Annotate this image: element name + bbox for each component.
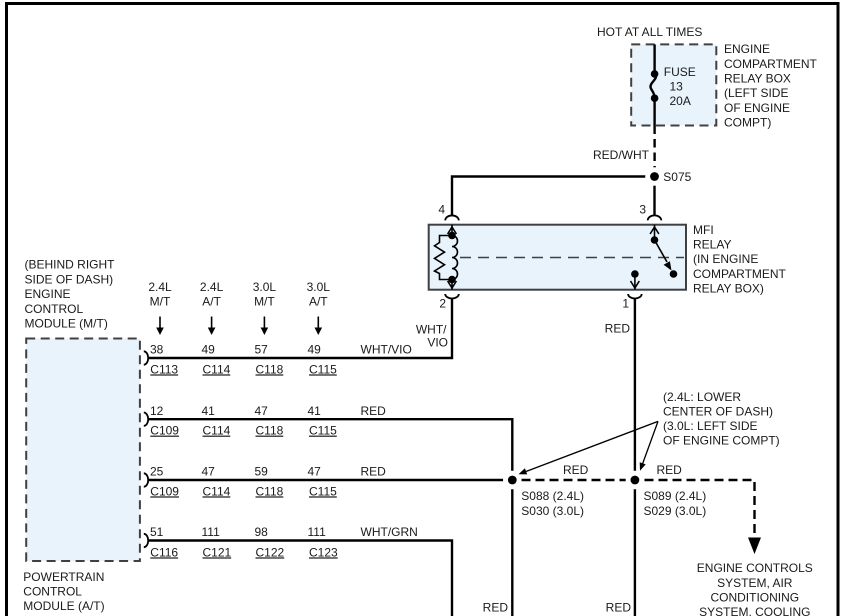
row 2 connector labels C109 C114 C118 C115: [150, 424, 337, 438]
header arrow col 2: [208, 317, 216, 336]
wire RED relay pin 1 down to S089 and bottom: [634, 299, 636, 616]
svg-text:MODULE (M/T): MODULE (M/T): [25, 317, 108, 331]
svg-text:OF ENGINE: OF ENGINE: [724, 101, 790, 115]
svg-text:CONTROL: CONTROL: [23, 585, 82, 599]
svg-text:47: 47: [308, 465, 322, 479]
svg-text:2.4L: 2.4L: [148, 280, 172, 294]
svg-text:C118: C118: [256, 362, 284, 376]
svg-text:RED: RED: [606, 601, 632, 615]
wire RED ECM row 2 to S088: [148, 419, 512, 480]
label (BEHIND RIGHT SIDE OF DASH) ENGINE CONTROL MODULE (M/T): [25, 258, 116, 331]
svg-text:ENGINE CONTROLS: ENGINE CONTROLS: [697, 561, 813, 575]
svg-text:COMPT): COMPT): [724, 115, 771, 129]
svg-text:C114: C114: [203, 484, 231, 498]
svg-text:12: 12: [150, 404, 164, 418]
svg-text:98: 98: [255, 525, 269, 539]
svg-text:RELAY: RELAY: [693, 238, 731, 252]
svg-text:41: 41: [308, 404, 322, 418]
row 3 connector labels C109 C114 C118 C115: [150, 484, 337, 498]
svg-text:1: 1: [622, 297, 629, 311]
svg-text:RED: RED: [605, 322, 631, 336]
row 1 connector arc at ECM: [144, 351, 148, 364]
note arrow to S088: [519, 421, 659, 474]
row 1 connector labels C113 C114 C118 C115: [150, 362, 337, 376]
svg-text:41: 41: [202, 404, 216, 418]
svg-text:C114: C114: [203, 424, 231, 438]
svg-text:3.0L: 3.0L: [253, 280, 277, 294]
svg-text:59: 59: [255, 465, 269, 479]
svg-text:49: 49: [308, 343, 322, 357]
svg-text:SYSTEM, COOLING: SYSTEM, COOLING: [699, 605, 810, 616]
row 4 connector labels C116 C121 C122 C123: [150, 545, 338, 559]
svg-text:C109: C109: [150, 424, 179, 438]
svg-text:49: 49: [202, 343, 216, 357]
pin 4 connector arc: [445, 215, 459, 220]
note arrow to S089: [640, 421, 658, 470]
label ENGINE COMPARTMENT RELAY BOX (LEFT SIDE OF ENGINE COMPT): [724, 42, 818, 129]
svg-text:M/T: M/T: [150, 294, 171, 308]
svg-text:RED: RED: [563, 463, 589, 477]
svg-text:RED: RED: [483, 601, 509, 615]
svg-text:C118: C118: [256, 424, 284, 438]
svg-text:HOT AT ALL TIMES: HOT AT ALL TIMES: [597, 25, 702, 39]
svg-text:C115: C115: [309, 424, 337, 438]
pin 2 connector arc: [445, 294, 459, 298]
row 4 pin numbers 51 111 98 111: [150, 525, 326, 539]
svg-text:2.4L: 2.4L: [200, 280, 224, 294]
column header 2.4L M/T: [148, 280, 172, 308]
svg-text:C114: C114: [203, 362, 231, 376]
svg-text:CONDITIONING: CONDITIONING: [710, 590, 799, 604]
svg-text:CENTER OF DASH): CENTER OF DASH): [663, 405, 773, 419]
relay switch: [631, 225, 668, 290]
svg-text:S075: S075: [663, 170, 691, 184]
svg-text:S029 (3.0L): S029 (3.0L): [644, 504, 707, 518]
svg-text:47: 47: [202, 465, 216, 479]
wire RED S088 down to bottom: [511, 480, 513, 616]
svg-text:C113: C113: [150, 362, 178, 376]
column header 2.4L A/T: [200, 280, 224, 308]
svg-text:RED: RED: [361, 465, 387, 479]
svg-text:47: 47: [255, 404, 269, 418]
column header 3.0L A/T: [307, 280, 331, 308]
svg-text:RELAY BOX: RELAY BOX: [724, 71, 791, 85]
svg-text:C116: C116: [150, 545, 178, 559]
relay MFI box: [429, 225, 686, 290]
svg-text:RED: RED: [657, 463, 683, 477]
svg-text:RED: RED: [361, 404, 387, 418]
svg-text:C121: C121: [203, 545, 232, 559]
svg-text:MFI: MFI: [693, 223, 714, 237]
svg-text:COMPARTMENT: COMPARTMENT: [724, 57, 818, 71]
svg-text:(LEFT SIDE: (LEFT SIDE: [724, 86, 788, 100]
column header 3.0L M/T: [253, 280, 277, 308]
pin 1 connector arc: [628, 294, 642, 299]
svg-text:(BEHIND RIGHT: (BEHIND RIGHT: [25, 258, 116, 272]
row 3 pin numbers 25 47 59 47: [150, 465, 321, 479]
svg-text:111: 111: [308, 525, 327, 539]
svg-text:(3.0L: LEFT SIDE: (3.0L: LEFT SIDE: [663, 419, 757, 433]
label POWERTRAIN CONTROL MODULE (A/T): [23, 570, 104, 613]
svg-text:38: 38: [150, 343, 164, 357]
header arrow col 3: [261, 317, 269, 336]
relay internal dashed line: [460, 257, 684, 259]
ECM / PCM module box (dashed): [26, 339, 140, 562]
wire RED ECM row 3 to S088: [148, 479, 512, 481]
svg-text:ENGINE: ENGINE: [25, 287, 71, 301]
splice S075: [645, 167, 664, 186]
svg-text:ENGINE: ENGINE: [724, 42, 770, 56]
row 2 pin numbers 12 41 47 41: [150, 404, 321, 418]
svg-text:51: 51: [150, 525, 164, 539]
label MFI RELAY (IN ENGINE COMPARTMENT RELAY BOX): [693, 223, 787, 295]
splice S089: [626, 471, 645, 490]
svg-text:WHT/GRN: WHT/GRN: [361, 525, 418, 539]
svg-text:OF ENGINE COMPT): OF ENGINE COMPT): [663, 434, 780, 448]
dashed wire RED S088 to S089: [522, 479, 635, 481]
svg-text:3: 3: [639, 203, 646, 217]
svg-text:VIO: VIO: [427, 336, 448, 350]
wire WHT/GRN ECM row 4 down to bottom: [148, 541, 452, 616]
svg-text:WHT/VIO: WHT/VIO: [361, 343, 412, 357]
svg-text:57: 57: [255, 343, 269, 357]
pin 3 connector arc: [648, 215, 662, 220]
wire WHT/VIO relay pin 2 down to ECM row 1: [148, 299, 452, 359]
wire RED/WHT fuse to S075 (dashed): [653, 126, 655, 173]
relay coil: [435, 225, 458, 290]
svg-text:(IN ENGINE: (IN ENGINE: [693, 252, 758, 266]
wire S075 to relay pin 4: [452, 177, 655, 216]
svg-text:20A: 20A: [670, 94, 691, 108]
svg-text:RELAY BOX): RELAY BOX): [693, 281, 764, 295]
off-page arrowhead: [748, 538, 761, 555]
svg-text:CONTROL: CONTROL: [25, 302, 84, 316]
row 1 pin numbers 38 49 57 49: [150, 343, 321, 357]
svg-text:C115: C115: [309, 484, 337, 498]
svg-text:C122: C122: [256, 545, 285, 559]
svg-text:(2.4L: LOWER: (2.4L: LOWER: [663, 390, 741, 404]
row 3 connector arc at ECM: [144, 473, 148, 486]
svg-text:3.0L: 3.0L: [307, 280, 331, 294]
svg-text:SIDE OF DASH): SIDE OF DASH): [25, 272, 114, 286]
wire S075 to relay pin 3: [653, 177, 655, 216]
fuse FUSE 13 20A: [650, 44, 656, 125]
svg-text:FUSE: FUSE: [664, 65, 696, 79]
row 4 connector arc at ECM: [144, 534, 148, 547]
svg-text:M/T: M/T: [254, 294, 275, 308]
engine compartment relay box (fuse box, dashed): [631, 44, 716, 125]
row 2 connector arc at ECM: [144, 413, 148, 426]
svg-text:S088 (2.4L): S088 (2.4L): [521, 489, 584, 503]
svg-text:C118: C118: [256, 484, 284, 498]
note label (2.4L: LOWER CENTER OF DASH) (3.0L: LEFT SIDE OF ENGINE COMPT): [663, 390, 780, 448]
dashed wire RED S089 to off-page arrow: [645, 480, 755, 536]
svg-text:A/T: A/T: [309, 294, 328, 308]
svg-text:RED/WHT: RED/WHT: [593, 148, 650, 162]
svg-text:SYSTEM, AIR: SYSTEM, AIR: [717, 576, 793, 590]
svg-text:4: 4: [438, 203, 445, 217]
svg-text:COMPARTMENT: COMPARTMENT: [693, 267, 787, 281]
svg-text:MODULE (A/T): MODULE (A/T): [23, 599, 104, 613]
svg-text:POWERTRAIN: POWERTRAIN: [23, 570, 104, 584]
svg-text:C115: C115: [309, 362, 337, 376]
label ENGINE CONTROLS SYSTEM, AIR CONDITIONING SYSTEM, COOLING: [697, 561, 813, 616]
svg-text:2: 2: [439, 297, 446, 311]
svg-text:25: 25: [150, 465, 164, 479]
svg-text:S030 (3.0L): S030 (3.0L): [521, 504, 584, 518]
svg-text:13: 13: [670, 79, 684, 93]
header arrow col 4: [315, 317, 323, 336]
splice S088: [503, 471, 522, 490]
svg-text:S089 (2.4L): S089 (2.4L): [644, 489, 707, 503]
svg-text:WHT/: WHT/: [416, 323, 447, 337]
svg-text:A/T: A/T: [202, 294, 221, 308]
header arrow col 1: [156, 317, 164, 336]
svg-text:C109: C109: [150, 484, 179, 498]
svg-text:111: 111: [202, 525, 221, 539]
svg-text:C123: C123: [309, 545, 338, 559]
